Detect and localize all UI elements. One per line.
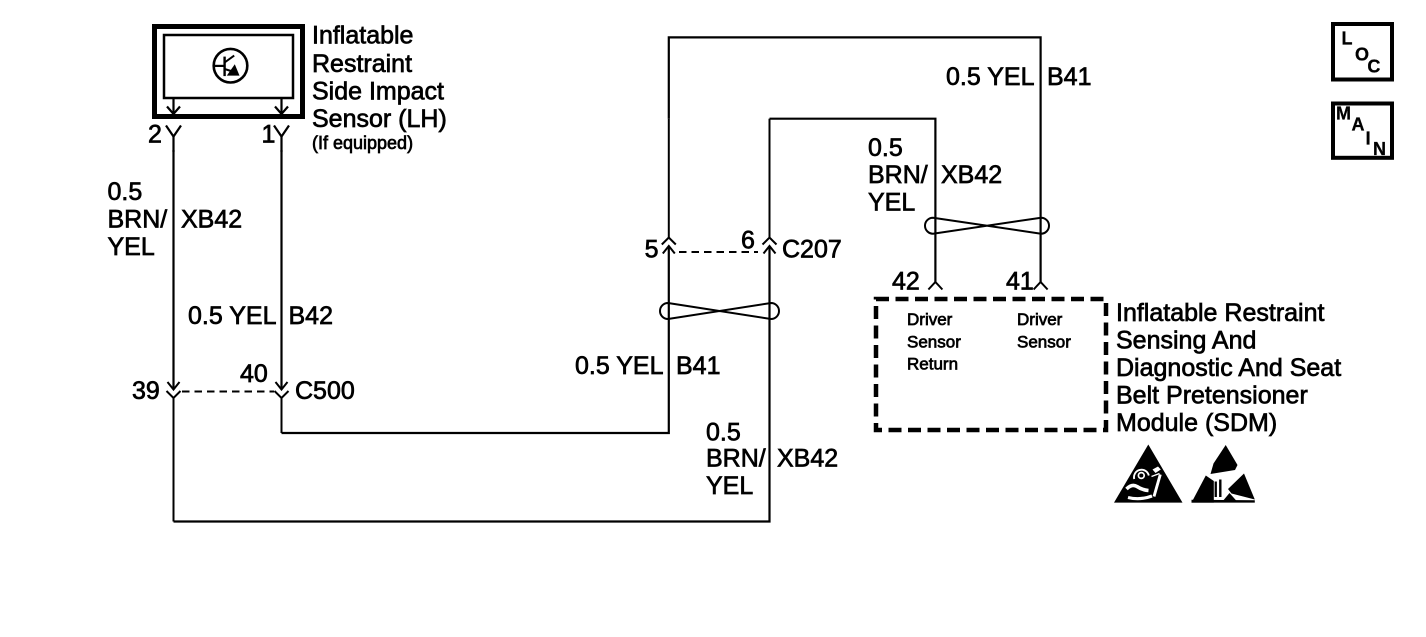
svg-text:BRN/: BRN/ — [706, 444, 766, 472]
svg-text:Restraint: Restraint — [312, 50, 412, 78]
svg-text:Inflatable Restraint: Inflatable Restraint — [1116, 299, 1325, 327]
SDM pin 42 symbol — [928, 282, 942, 290]
svg-text:Sensor: Sensor — [907, 332, 961, 351]
svg-text:Inflatable: Inflatable — [312, 22, 413, 50]
svg-text:42: 42 — [892, 268, 920, 296]
twisted pair symbol (lower) — [660, 303, 779, 319]
svg-text:XB42: XB42 — [941, 161, 1002, 189]
svg-text:0.5 YEL: 0.5 YEL — [575, 352, 664, 380]
C207 pin6 connector (chevron + arrow) — [763, 119, 777, 254]
svg-text:C: C — [1367, 57, 1380, 77]
svg-text:0.5 YEL: 0.5 YEL — [946, 63, 1035, 91]
svg-text:YEL: YEL — [868, 189, 915, 217]
svg-text:Driver: Driver — [1017, 310, 1063, 329]
twisted pair symbol (right) — [925, 218, 1049, 234]
svg-text:M: M — [1336, 104, 1351, 124]
svg-text:C500: C500 — [295, 377, 355, 405]
svg-text:Return: Return — [907, 355, 958, 374]
svg-text:6: 6 — [741, 227, 755, 255]
svg-text:40: 40 — [240, 360, 268, 388]
wire pin40 run to C207 pin5 — [282, 246, 669, 433]
svg-text:Sensing And: Sensing And — [1116, 326, 1256, 354]
svg-text:XB42: XB42 — [181, 206, 242, 234]
svg-text:A: A — [1352, 114, 1365, 134]
svg-text:XB42: XB42 — [777, 444, 838, 472]
svg-text:Sensor: Sensor — [1017, 332, 1071, 351]
svg-text:Side Impact: Side Impact — [312, 78, 444, 106]
wire pin2 down to C500 pin39 — [172, 150, 174, 389]
svg-text:L: L — [1342, 28, 1353, 48]
svg-text:2: 2 — [148, 121, 162, 149]
C500 dashed separator — [182, 391, 274, 393]
svg-text:0.5: 0.5 — [706, 418, 741, 446]
svg-text:Sensor (LH): Sensor (LH) — [312, 105, 447, 133]
C207 dashed separator — [679, 251, 758, 253]
svg-text:Belt Pretensioner: Belt Pretensioner — [1116, 382, 1308, 410]
svg-text:Module (SDM): Module (SDM) — [1116, 409, 1277, 437]
SDM pin 41 symbol — [1034, 282, 1048, 290]
arrow pin 2 inside box — [167, 97, 180, 114]
wire pin6 horizontal run to SDM 42 — [770, 119, 936, 282]
svg-text:B42: B42 — [289, 302, 333, 330]
svg-text:C207: C207 — [782, 235, 842, 263]
SIR warning triangle — [1114, 445, 1183, 503]
pin 1 connector Y symbol — [274, 126, 289, 153]
wire pin1 down to C500 pin40 — [280, 150, 282, 389]
C500 pin40 connector (arrow + chevron) — [275, 382, 289, 433]
svg-text:YEL: YEL — [706, 472, 753, 500]
svg-text:Diagnostic And Seat: Diagnostic And Seat — [1116, 354, 1341, 382]
sensor outer box — [155, 27, 303, 117]
SDM dashed box — [876, 299, 1106, 430]
sensor symbol circle — [214, 49, 248, 83]
svg-text:B41: B41 — [1047, 63, 1091, 91]
svg-text:0.5: 0.5 — [108, 178, 143, 206]
LOC box — [1333, 24, 1392, 80]
svg-text:0.5: 0.5 — [868, 134, 903, 162]
svg-text:YEL: YEL — [108, 233, 155, 261]
svg-text:Driver: Driver — [907, 310, 953, 329]
sensor inner box — [164, 35, 293, 98]
wire pin39 bottom run — [174, 246, 770, 522]
arrow pin 1 inside box — [275, 97, 288, 114]
svg-text:N: N — [1373, 139, 1386, 159]
svg-text:5: 5 — [645, 235, 659, 263]
svg-text:B41: B41 — [676, 352, 720, 380]
svg-text:39: 39 — [132, 377, 160, 405]
MAIN box — [1333, 104, 1392, 158]
wire top horizontal run pin5 to SDM 41 — [669, 37, 1041, 282]
C500 pin39 connector (arrow + chevron) — [167, 382, 181, 522]
C207 pin5 connector (chevron + arrow) — [662, 119, 676, 254]
svg-text:BRN/: BRN/ — [868, 161, 928, 189]
svg-text:1: 1 — [262, 121, 276, 149]
svg-text:I: I — [1366, 129, 1371, 149]
svg-text:41: 41 — [1006, 268, 1034, 296]
pin 2 connector Y symbol — [166, 126, 181, 153]
ESD warning triangle — [1192, 445, 1255, 503]
svg-text:(If equipped): (If equipped) — [312, 133, 413, 153]
svg-text:0.5 YEL: 0.5 YEL — [188, 302, 277, 330]
svg-text:BRN/: BRN/ — [108, 206, 168, 234]
